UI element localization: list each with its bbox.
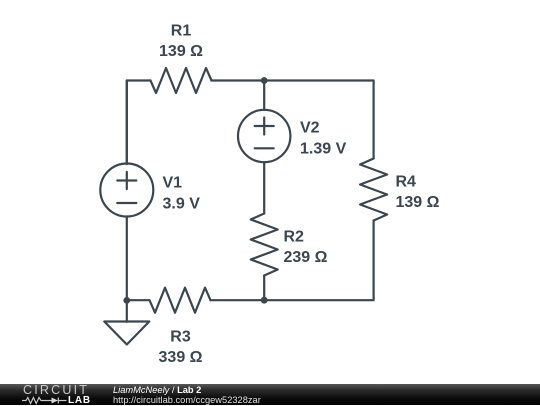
node G junction dot <box>123 297 130 304</box>
CircuitLab logo wordmark <box>23 386 89 395</box>
V1 value label <box>163 175 201 213</box>
svg-text:239 Ω: 239 Ω <box>284 249 328 266</box>
resistor R2 <box>251 214 278 276</box>
svg-text:139 Ω: 139 Ω <box>396 194 440 211</box>
svg-text:V2: V2 <box>300 120 320 137</box>
svg-text:R3: R3 <box>170 329 191 346</box>
svg-text:1.39 V: 1.39 V <box>300 141 347 158</box>
svg-text:139 Ω: 139 Ω <box>159 43 203 60</box>
node A junction dot <box>261 77 268 84</box>
voltage source V2 <box>238 110 290 162</box>
resistor R1 <box>151 68 212 93</box>
wire left: V1 top <box>126 81 128 165</box>
wire V1 bottom to ground node <box>126 217 128 301</box>
svg-text:V1: V1 <box>163 175 183 192</box>
svg-text:R2: R2 <box>284 229 305 246</box>
node B junction dot <box>261 297 268 304</box>
wire top-left: corner to R1 <box>127 81 151 164</box>
wire R1 to top-right corner and node A <box>212 81 374 159</box>
ground <box>104 322 149 345</box>
wire R3 to node B <box>211 299 265 301</box>
footer watermark bar <box>0 384 540 405</box>
R4 value label <box>396 173 440 211</box>
resistor R4 <box>360 159 387 221</box>
wire R4 to bottom-right corner <box>264 221 373 301</box>
svg-text:R4: R4 <box>396 173 417 190</box>
R3 value label <box>159 329 203 366</box>
R1 value label <box>159 23 203 61</box>
V2 value label <box>300 120 347 158</box>
wire R2 to bottom node B <box>263 276 265 301</box>
wire node A down to V2 <box>263 81 265 111</box>
svg-text:339 Ω: 339 Ω <box>159 349 203 366</box>
url text <box>113 396 261 405</box>
svg-text:R1: R1 <box>171 23 192 40</box>
wire V2 to R2 <box>263 162 265 213</box>
attribution text <box>113 386 201 395</box>
wire ground stem <box>126 300 128 321</box>
R2 value label <box>284 229 328 267</box>
wire node G to R3 <box>127 299 150 301</box>
logo circuit glyph: resistor + diode <box>22 396 68 405</box>
voltage source V1 <box>100 164 153 217</box>
resistor R3 <box>150 288 211 313</box>
svg-text:3.9 V: 3.9 V <box>163 196 201 213</box>
